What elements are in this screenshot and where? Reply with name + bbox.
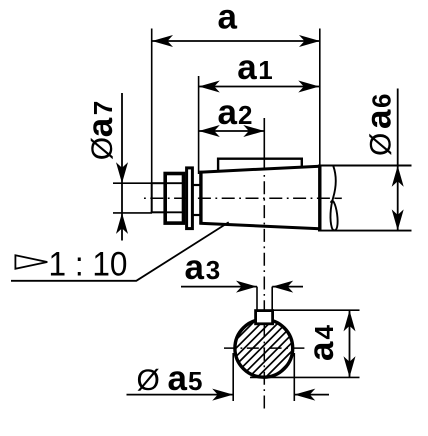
- taper symbol triangle: [15, 255, 47, 268]
- section circle shaft cross-section: [235, 319, 293, 377]
- dimension a: [152, 0, 320, 183]
- hatching: [175, 310, 400, 392]
- dimension dia a5: [127, 353, 330, 401]
- dimension a3: [181, 248, 303, 311]
- taper cone body: [200, 166, 320, 229]
- dimension dia a7: [81, 93, 152, 241]
- svg-text:a: a: [218, 0, 238, 37]
- centerline tick at break: [336, 197, 342, 199]
- big cylinder top and bottom edge / extension for a6: [318, 166, 412, 231]
- dimension a1: [199, 48, 320, 174]
- key cross-section: [256, 311, 273, 324]
- wire centerline horizontal of shaft: [144, 197, 342, 199]
- dimension a2: [199, 93, 264, 171]
- dimension a4: [250, 310, 360, 377]
- key on taper: [217, 158, 303, 172]
- shoulder of big cylinder: [318, 165, 321, 231]
- svg-text:1 : 10: 1 : 10: [49, 246, 128, 284]
- nut: [165, 174, 184, 224]
- dimension dia a6: [360, 89, 404, 232]
- washer: [187, 168, 193, 229]
- centerline horizontal of section circle: [224, 347, 306, 349]
- break line wavy: [330, 166, 337, 230]
- shaft neck: [192, 185, 200, 215]
- taper leader line: [11, 222, 229, 280]
- threaded stub left end: [151, 183, 165, 213]
- section centerline vertical: [263, 171, 265, 410]
